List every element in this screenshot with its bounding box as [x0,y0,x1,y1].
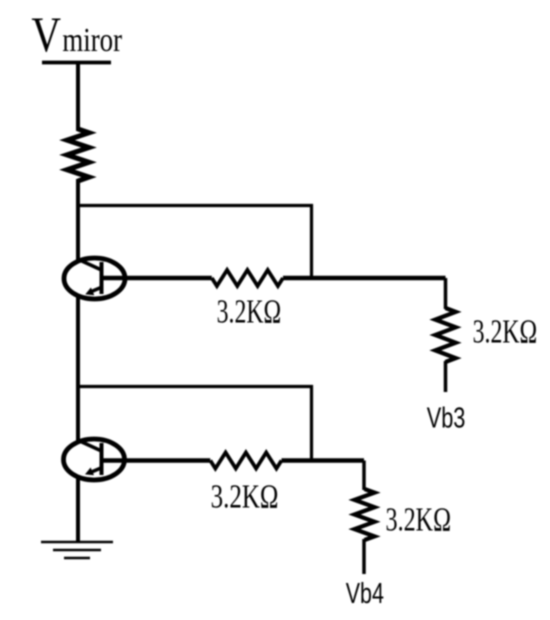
svg-text:3.2KΩ: 3.2KΩ [211,478,279,516]
svg-text:Vb4: Vb4 [346,578,384,610]
svg-text:miror: miror [62,21,122,59]
svg-text:3.2KΩ: 3.2KΩ [473,314,538,351]
svg-text:V: V [31,6,61,62]
svg-text:3.2KΩ: 3.2KΩ [386,502,452,539]
svg-text:3.2KΩ: 3.2KΩ [217,294,282,331]
svg-text:Vb3: Vb3 [427,403,466,435]
